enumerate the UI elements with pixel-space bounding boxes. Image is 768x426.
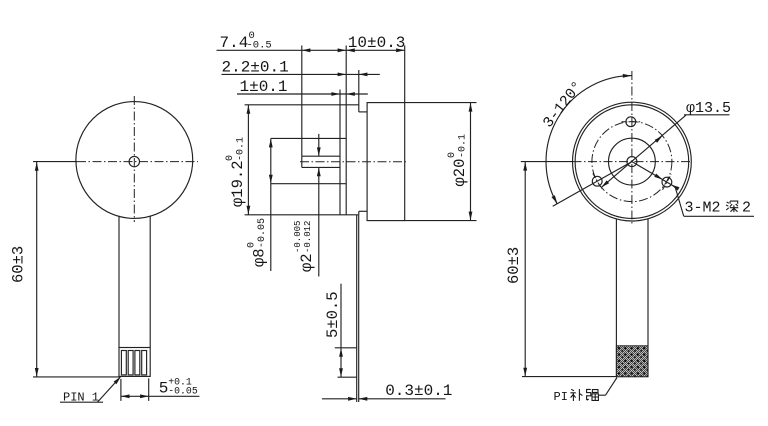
60±3 text (left): [10, 246, 28, 283]
phi20 bottom arrow: [469, 212, 473, 221]
svg-text:PIN 1: PIN 1: [63, 391, 99, 405]
3-120° arc top arrow: [623, 74, 632, 78]
svg-text:0: 0: [225, 155, 236, 161]
svg-text:0.3±0.1: 0.3±0.1: [385, 382, 452, 400]
60±3 bottom arrow (left): [35, 368, 39, 377]
FPC cable left edge (left view): [118, 216, 120, 348]
phi8 boss bottom edge: [271, 183, 346, 185]
svg-text:5: 5: [159, 380, 169, 398]
svg-text:5±0.5: 5±0.5: [324, 291, 342, 338]
svg-text:φ8: φ8: [251, 248, 269, 267]
bottom-right hole cross tick: [663, 174, 672, 190]
7.4 right arrow: [338, 48, 347, 52]
phi2 lower arrow: [317, 168, 321, 177]
2.2 right extension / step corner: [358, 70, 360, 112]
left view shaft circle phi2: [129, 156, 139, 166]
60±3 bottom extension line (left): [33, 376, 121, 378]
5±0.5 top extension stub: [335, 347, 357, 349]
shaft left end face: [301, 156, 303, 167]
0.3 left arrow: [348, 397, 357, 401]
7.4 left arrow: [302, 48, 311, 52]
0.3 dim left extension: [356, 381, 358, 403]
60±3 text (right): [505, 247, 523, 284]
3-M2 underline: [684, 215, 754, 217]
M2 screw hole bottom-left: [592, 176, 602, 186]
phi20 top extension line: [405, 102, 477, 104]
phi19.2 bottom arrow: [247, 206, 251, 215]
phi2 text: [293, 221, 316, 272]
svg-text:-0.1: -0.1: [236, 137, 247, 161]
svg-text:3-M2: 3-M2: [685, 200, 721, 217]
svg-text:φ19.2: φ19.2: [229, 160, 247, 207]
can left edge / phi19.2 dim line: [247, 105, 249, 215]
phi13.5 underline: [684, 114, 730, 116]
bolt circle phi13.5 (dash-dot): [592, 122, 672, 202]
3-M2 inner arrow: [654, 174, 662, 180]
60±3 dimension line (right): [524, 162, 526, 377]
right view vertical center line: [631, 71, 633, 225]
7.4 dimension line row: [217, 49, 347, 51]
10±0.3 dimension line: [346, 49, 405, 51]
FPC cable left edge (right view): [615, 219, 617, 377]
PI 补强 leader tick: [599, 394, 606, 396]
phi20 front housing rectangle: [367, 103, 405, 221]
phi2 upper arrow: [317, 147, 321, 156]
1 left arrow (outside): [331, 92, 340, 96]
10 left arrow: [346, 48, 355, 52]
phi8 boss left face / phi8 dim line: [270, 138, 272, 271]
svg-text:3-120°: 3-120°: [540, 78, 587, 131]
svg-text:60±3: 60±3: [10, 246, 28, 283]
svg-text:7.4: 7.4: [220, 34, 249, 52]
3-120° angular dimension arc: [546, 76, 632, 204]
top hole horizontal tick marks: [622, 121, 641, 123]
phi8 boss top edge: [271, 137, 346, 139]
connector pin slots: [121, 351, 126, 375]
10 right arrow: [396, 48, 405, 52]
phi2 dim upper line: [318, 134, 320, 156]
5 dim left arrow: [121, 394, 130, 398]
left view vertical center line: [133, 96, 135, 222]
svg-text:10±0.3: 10±0.3: [348, 34, 406, 52]
PIN 1 underline: [60, 401, 103, 403]
5 dim right extension line: [148, 378, 150, 401]
phi20 top arrow: [469, 103, 473, 112]
svg-text:-0.005: -0.005: [293, 221, 303, 253]
PI stiffener block (stippled): [616, 346, 648, 377]
joint line x=340 / 1±0.1 left ext: [339, 90, 341, 215]
shaft bottom edge: [302, 166, 340, 168]
step ring bottom edge: [359, 210, 367, 212]
5±0.5 top arrow: [339, 348, 343, 357]
phi19.2 text: [225, 137, 247, 207]
3-M2 leader kink segment: [675, 187, 684, 216]
radial line through bottom-left hole: [553, 162, 632, 207]
right view shaft circle phi2: [627, 157, 637, 167]
0.3 dim line left part: [322, 398, 357, 400]
step ring top edge: [359, 111, 367, 113]
svg-text:φ13.5: φ13.5: [686, 100, 731, 117]
svg-text:1±0.1: 1±0.1: [240, 78, 288, 96]
left view horizontal center line: [77, 161, 198, 163]
3-120° text: [540, 78, 587, 131]
svg-text:2: 2: [742, 200, 751, 217]
FPC cable right edge (right view): [647, 219, 649, 377]
7.4 dim left extension line: [301, 46, 303, 157]
phi20 bottom extension line: [405, 220, 477, 222]
60±3 top arrow (left): [35, 162, 39, 171]
svg-text:φ20: φ20: [451, 159, 469, 187]
svg-text:PI: PI: [554, 390, 568, 404]
phi13.5 upper-right arrow (outward): [655, 136, 663, 143]
bottom-left hole cross tick: [593, 173, 602, 189]
right view horizontal center line: [573, 161, 691, 163]
5±0.5 text: [324, 291, 342, 338]
5 dim left extension line: [120, 379, 122, 401]
深 glyph (strokes): [726, 201, 738, 212]
2.2 left arrow (outside): [338, 73, 347, 77]
M2 screw hole top: [626, 117, 636, 127]
FPC cable left line (middle view): [356, 215, 358, 381]
补 glyph (strokes): [570, 389, 582, 401]
svg-text:-0.05: -0.05: [257, 218, 268, 248]
60±3 top extension line (left view): [33, 161, 77, 163]
FPC cable right line (middle view): [358, 215, 360, 381]
3-M2 outer arrow: [671, 185, 679, 191]
svg-text:-0.1: -0.1: [458, 134, 469, 158]
10 right extension line: [404, 46, 406, 103]
svg-text:0: 0: [447, 152, 458, 158]
svg-text:-0.05: -0.05: [168, 385, 198, 396]
left view motor body circle phi20: [76, 102, 193, 219]
phi8 bottom arrow: [269, 175, 273, 184]
right view rim circle: [575, 105, 689, 219]
3-120° arc bottom arrow: [552, 195, 558, 203]
60±3 dimension line (left): [36, 162, 38, 377]
PIN 1 leader arrow: [114, 377, 121, 385]
right view outer circle phi20: [573, 102, 692, 221]
svg-text:-0.012: -0.012: [303, 221, 313, 253]
right view phi8 boss circle: [609, 138, 656, 185]
1±0.1 dimension line: [237, 93, 368, 95]
5±0.5 dimension line: [340, 284, 342, 378]
shaft top edge: [302, 155, 340, 157]
2.2±0.1 dimension line: [222, 73, 380, 75]
PI 补强 leader line: [606, 378, 618, 396]
5±0.5 bottom arrow: [339, 368, 343, 377]
phi8 text: [247, 218, 269, 267]
joint line x=346 / common extension line: [345, 46, 347, 215]
svg-text:2.2±0.1: 2.2±0.1: [222, 59, 289, 77]
phi20 text: [447, 134, 469, 187]
svg-text:-0.5: -0.5: [247, 40, 272, 52]
1 right arrow (outside): [346, 92, 355, 96]
FPC connector box (left view): [119, 348, 150, 377]
middle view horizontal center line: [300, 161, 408, 163]
60±3 top extension (right): [521, 161, 573, 163]
radial line through bottom-right hole (3-M2 leader): [632, 162, 675, 187]
phi19.2 top arrow: [247, 105, 251, 114]
phi20 dimension line: [470, 103, 472, 221]
60±3 bottom extension (right): [522, 376, 616, 378]
phi13.5 lower-left arrow (outward): [601, 180, 609, 187]
phi8 top arrow: [269, 139, 273, 148]
svg-text:60±3: 60±3: [505, 247, 523, 284]
0.3 dim line right part: [359, 398, 446, 400]
phi2 dim lower line: [318, 167, 320, 276]
0.3 dim right extension: [358, 381, 360, 403]
M2 screw hole bottom-right: [662, 177, 672, 187]
PIN 1 leader line: [97, 378, 119, 402]
60±3 top arrow (right): [523, 162, 527, 171]
can top edge: [245, 104, 359, 106]
2.2 right arrow (outside): [359, 73, 368, 77]
svg-text:φ2: φ2: [298, 253, 316, 272]
5±0.5 bottom extension stub: [338, 376, 357, 378]
5 dim dimension line: [121, 395, 199, 397]
svg-text:0: 0: [247, 242, 258, 248]
can bottom edge: [245, 214, 359, 216]
强 glyph (strokes): [587, 389, 599, 400]
FPC cable right edge (left view): [149, 216, 151, 348]
0.3 right arrow: [359, 397, 368, 401]
5 dim right arrow: [140, 394, 149, 398]
phi13.5 dimension line through bolt circle: [601, 115, 686, 187]
step bottom corner: [358, 211, 360, 215]
60±3 bottom arrow (right): [523, 368, 527, 377]
